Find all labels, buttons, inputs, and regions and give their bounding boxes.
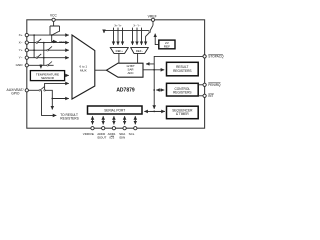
svg-text:AD7879: AD7879 bbox=[116, 87, 135, 93]
pin INT bbox=[203, 94, 206, 97]
svg-text:REGISTERS: REGISTERS bbox=[60, 117, 78, 121]
svg-text:REF.: REF. bbox=[59, 40, 66, 44]
arrow GND to temp sensor bbox=[40, 65, 42, 68]
junction rail / result wire bbox=[153, 69, 155, 71]
svg-text:INT: INT bbox=[208, 94, 213, 98]
junction rail A / X+ bbox=[33, 34, 35, 36]
junction rail / sequencer wire bbox=[153, 111, 155, 113]
wire rail B (gnd) bbox=[43, 43, 45, 66]
junction rail A / Y+ bbox=[33, 49, 35, 51]
svg-text:X− Y−: X− Y− bbox=[133, 24, 141, 28]
pin SDA/DIN bbox=[123, 127, 126, 130]
svg-text:X+: X+ bbox=[19, 33, 23, 37]
wire Y+ bbox=[29, 49, 69, 51]
pin ADD0/DOUT bbox=[102, 127, 105, 130]
AUX lower branch to MUX bbox=[45, 90, 68, 98]
switch blade Y- row bbox=[37, 54, 41, 58]
wire to result registers text bbox=[42, 90, 57, 115]
svg-text:REGISTERS: REGISTERS bbox=[173, 69, 191, 73]
VREF switch bbox=[152, 22, 154, 26]
svg-text:/DOUT: /DOUT bbox=[97, 136, 107, 140]
wire GND bbox=[29, 64, 54, 66]
svg-text:REGISTERS: REGISTERS bbox=[173, 91, 191, 95]
2V REF to switch arrow bbox=[155, 34, 159, 45]
ADC block bbox=[107, 63, 144, 77]
wire Y- bbox=[29, 57, 69, 59]
wire rail A bbox=[33, 35, 35, 58]
6 to 1 MUX bbox=[72, 35, 95, 99]
temperature sensor box bbox=[30, 71, 64, 81]
right rail bbox=[153, 64, 155, 109]
svg-text:REF+: REF+ bbox=[116, 49, 124, 53]
REF+ mux bbox=[110, 48, 128, 54]
svg-text:Y+: Y+ bbox=[19, 48, 23, 52]
pin SCL bbox=[134, 127, 137, 130]
CONTROL REGISTERS box bbox=[167, 83, 199, 96]
junction GND / temp arrow bbox=[40, 64, 42, 66]
MUX output wire bbox=[95, 69, 107, 71]
2V REF box bbox=[159, 40, 175, 49]
temp to MUX arrow bbox=[65, 74, 69, 76]
wire from switch into REF- mux bbox=[146, 32, 150, 45]
svg-text:GND: GND bbox=[16, 63, 24, 67]
svg-text:/DIN: /DIN bbox=[119, 136, 125, 140]
svg-text:SCL: SCL bbox=[129, 132, 135, 136]
junction rail B / X- bbox=[43, 42, 45, 44]
svg-text:REF−: REF− bbox=[136, 49, 144, 53]
svg-text:REF: REF bbox=[164, 45, 170, 49]
junction X+ / REF wire bbox=[51, 34, 53, 36]
wire X- bbox=[29, 42, 69, 44]
svg-text:MUX: MUX bbox=[80, 68, 87, 72]
svg-text:ADC: ADC bbox=[127, 71, 133, 75]
SERIAL PORT box bbox=[88, 106, 143, 114]
AUX wire + switch bbox=[29, 89, 39, 91]
pin PENIRQ bbox=[203, 83, 206, 86]
svg-text:X−: X− bbox=[19, 40, 23, 44]
REF wire and label bbox=[52, 35, 57, 41]
RESULT REGISTERS box bbox=[167, 62, 199, 76]
svg-text:Y−: Y− bbox=[19, 56, 23, 60]
svg-text:VDRIVE: VDRIVE bbox=[83, 132, 94, 136]
sequencer wire bbox=[144, 110, 165, 112]
pin ADD1/CS bbox=[112, 127, 115, 130]
pin STOPACQ bbox=[203, 55, 206, 58]
SEQUENCER & TIMER box bbox=[167, 106, 199, 119]
PENIRQ stub bbox=[198, 84, 203, 86]
REF- mux bbox=[131, 48, 149, 54]
junction AUX branch bbox=[51, 98, 53, 100]
junction rail B / Y- bbox=[43, 57, 45, 59]
AUX upper branch to MUX bbox=[45, 83, 69, 89]
svg-text:& TIMER: & TIMER bbox=[176, 112, 190, 116]
AUX down arrow bbox=[51, 99, 53, 110]
junction rail / control wire bbox=[153, 89, 155, 91]
INT stub bbox=[198, 95, 203, 97]
VCC switch bbox=[50, 22, 60, 35]
pin VDRIVE bbox=[91, 127, 94, 130]
svg-text:GPIO: GPIO bbox=[11, 91, 20, 95]
ADC to result registers wire bbox=[143, 69, 164, 71]
switch blade GND row bbox=[48, 62, 52, 66]
svg-text:PENIRQ: PENIRQ bbox=[208, 83, 221, 87]
serial port pin arrows bbox=[92, 116, 94, 120]
svg-text:SENSOR: SENSOR bbox=[41, 76, 55, 80]
STOPACQ wire bbox=[146, 56, 203, 64]
svg-text:SERIAL PORT: SERIAL PORT bbox=[104, 108, 125, 112]
switch blade Y+ row bbox=[48, 46, 52, 50]
switch blade X- row bbox=[37, 39, 41, 43]
wire X+ to MUX bbox=[29, 34, 69, 36]
svg-text:STOPACQ: STOPACQ bbox=[208, 55, 224, 59]
control registers double arrow bbox=[156, 89, 160, 91]
chip outline bbox=[27, 20, 205, 128]
svg-text:VCC: VCC bbox=[50, 14, 57, 18]
svg-text:X+ Y+: X+ Y+ bbox=[114, 24, 122, 28]
wire from switch to left with down arrow bbox=[104, 31, 149, 33]
